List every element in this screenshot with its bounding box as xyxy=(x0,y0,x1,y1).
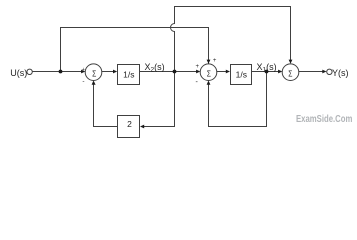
arrowhead into block G2 xyxy=(226,70,230,74)
svg-text:+: + xyxy=(196,64,200,70)
wire feedforward node A up and over to summer S2 top xyxy=(61,28,209,72)
wire U(s) input to summer S1 xyxy=(32,71,81,73)
svg-text:ExamSide.Com: ExamSide.Com xyxy=(296,113,352,124)
wire summer S1 to block G1 xyxy=(102,71,114,73)
arrowhead into summer S3 left xyxy=(278,70,282,74)
wire node X2 down to gain block K xyxy=(144,72,175,127)
summer S2 xyxy=(200,64,217,81)
wire node X2 up with hop over feedforward, across top to summer S3 xyxy=(171,7,291,72)
svg-text:U(s): U(s) xyxy=(10,68,27,78)
summer S3 xyxy=(282,64,299,81)
wire block G1 to node X2 xyxy=(140,71,175,73)
wire summer S3 to output terminal xyxy=(299,71,323,73)
watermark ExamSide.Com xyxy=(296,113,352,124)
svg-text:Σ: Σ xyxy=(92,68,96,78)
wire gain block K to summer S1 bottom xyxy=(94,85,118,127)
arrowhead into summer S2 left xyxy=(196,70,200,74)
arrowhead into summer S2 bottom xyxy=(207,81,211,85)
svg-text:2: 2 xyxy=(127,119,132,129)
summer S1 xyxy=(85,64,102,81)
arrowhead into summer S1 left xyxy=(81,70,85,74)
block K gain 2 xyxy=(118,116,140,138)
svg-text:+: + xyxy=(213,58,217,64)
node A junction dot xyxy=(59,70,63,74)
node X1 junction dot xyxy=(265,70,269,74)
arrowhead into gain block K right side xyxy=(140,125,144,129)
arrowhead into summer S2 top xyxy=(207,60,211,64)
block G2 1/s xyxy=(231,65,252,85)
block G1 1/s xyxy=(118,65,140,85)
wire node X2 to summer S2 xyxy=(175,71,197,73)
arrowhead into output terminal xyxy=(322,70,326,74)
svg-text:X1(s): X1(s) xyxy=(257,62,277,74)
input terminal circle xyxy=(27,69,32,74)
node X2 junction dot xyxy=(173,70,177,74)
svg-text:-: - xyxy=(82,78,84,85)
svg-text:1/s: 1/s xyxy=(123,69,134,79)
wire block G2 to node X1 xyxy=(252,71,267,73)
svg-text:X2(s): X2(s) xyxy=(145,62,165,74)
wire node X1 to summer S3 xyxy=(267,71,280,73)
arrowhead into block G1 xyxy=(113,70,117,74)
svg-text:+: + xyxy=(82,67,85,73)
arrowhead into summer S1 bottom xyxy=(92,81,96,85)
svg-text:1/s: 1/s xyxy=(236,69,247,79)
svg-text:Y(s): Y(s) xyxy=(332,68,349,78)
arrowhead into summer S3 top xyxy=(289,60,293,64)
output terminal circle xyxy=(327,69,332,74)
svg-text:Σ: Σ xyxy=(288,68,292,78)
svg-text:Σ: Σ xyxy=(207,68,211,78)
wire summer S2 to block G2 xyxy=(217,71,227,73)
wire node X1 down and back to summer S2 bottom xyxy=(209,72,267,127)
